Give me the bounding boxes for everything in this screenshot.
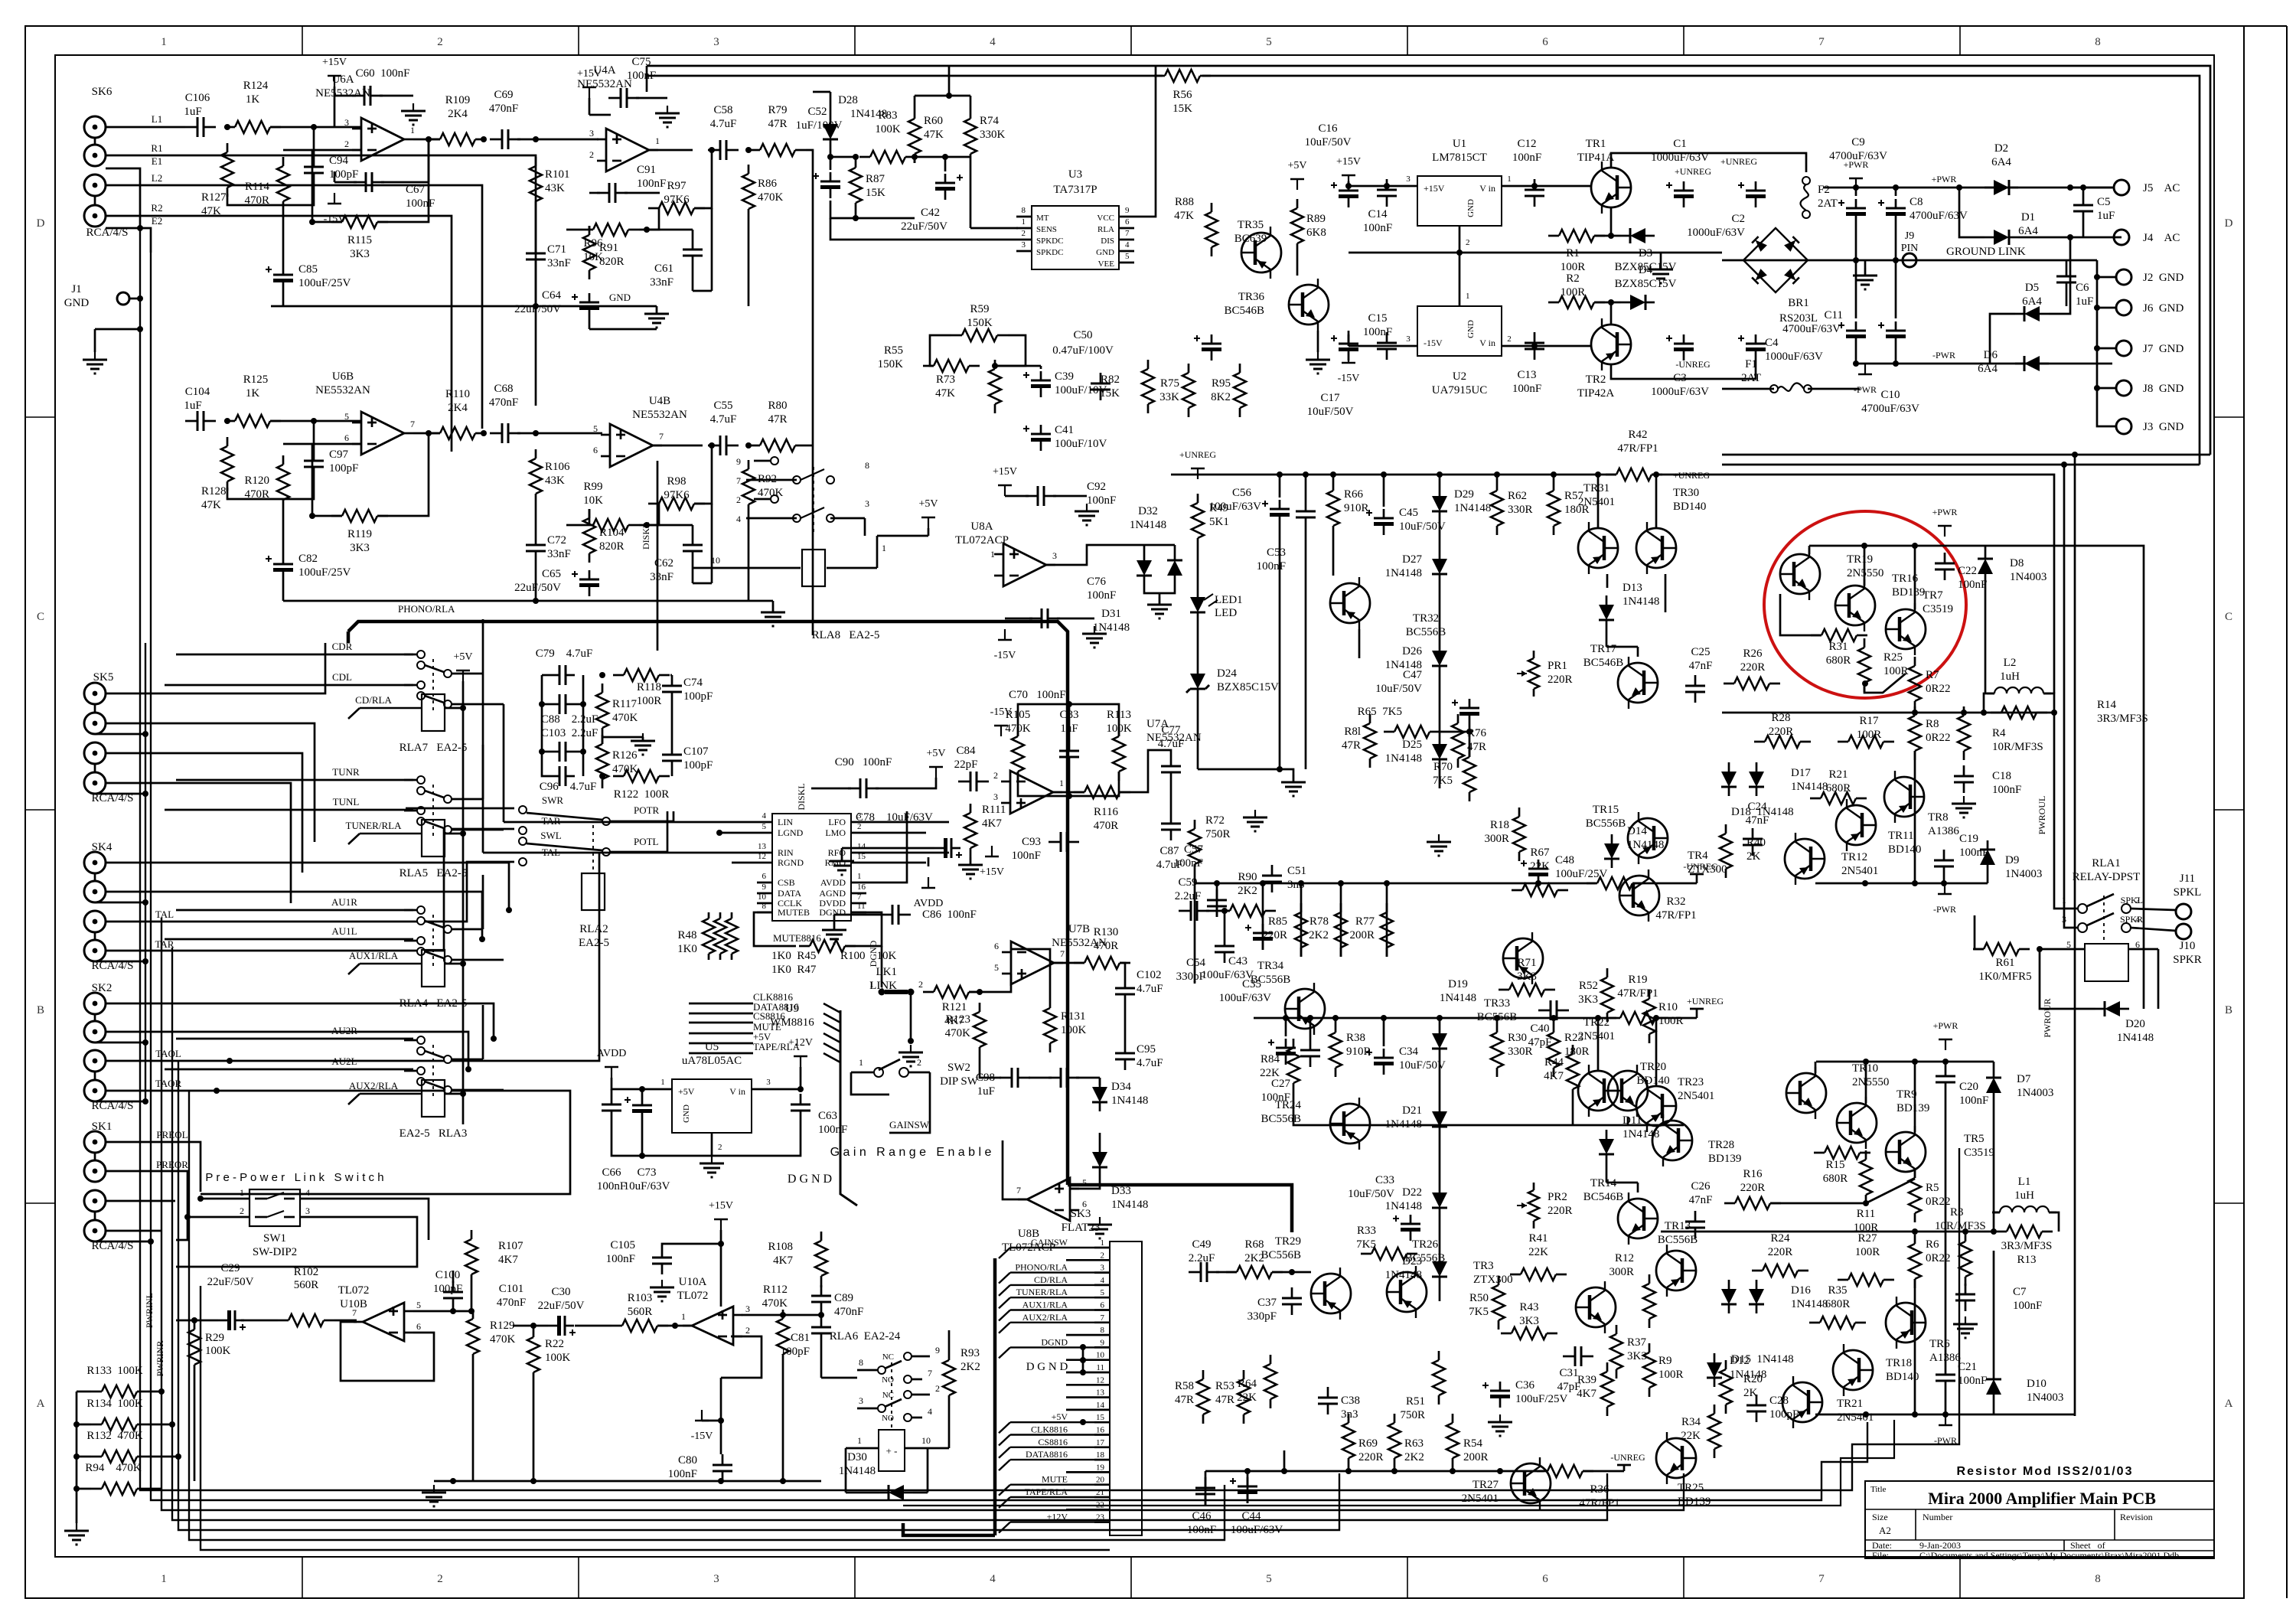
svg-text:R35: R35	[1828, 1284, 1847, 1297]
junction fb in u6b	[309, 513, 315, 519]
svg-text:2: 2	[589, 149, 594, 160]
wire outR stubs	[1815, 1062, 1817, 1073]
svg-text:5: 5	[1101, 1288, 1105, 1297]
svg-text:100R: 100R	[1561, 286, 1586, 299]
svg-text:TR29: TR29	[1275, 1235, 1301, 1248]
junction SK5 bus j1	[142, 731, 148, 737]
potentiometer PR2	[1528, 1190, 1539, 1221]
svg-text:DGND: DGND	[868, 940, 879, 967]
wire top bus left drop2	[646, 75, 648, 77]
svg-text:1: 1	[857, 872, 862, 881]
diode D14	[1604, 843, 1619, 859]
svg-text:1N4148: 1N4148	[839, 1465, 876, 1477]
connector SK5-1	[84, 683, 106, 704]
wire c90 right	[876, 778, 936, 788]
svg-text:4K7: 4K7	[1577, 1388, 1596, 1400]
diode D17	[1749, 772, 1764, 787]
svg-text:1: 1	[859, 1057, 863, 1068]
connector SK5-3	[84, 742, 106, 764]
svg-text:J7 GND: J7 GND	[2143, 343, 2184, 355]
junction j c11	[1853, 361, 1859, 367]
junction outR mj1	[1912, 1228, 1918, 1235]
wire fb left u6b	[312, 444, 361, 516]
resistor R113	[1113, 736, 1125, 772]
svg-text:C15: C15	[1368, 312, 1387, 325]
wire tr30 e	[1665, 574, 1667, 612]
svg-text:680R: 680R	[1826, 654, 1851, 667]
junction rail R j1881	[1437, 1015, 1443, 1021]
svg-text:2K: 2K	[1746, 850, 1761, 863]
ground matrix gnd	[642, 733, 644, 741]
contact RLA6 nc2	[904, 1391, 912, 1398]
ground c86 gnd	[833, 922, 835, 930]
svg-text:PR2: PR2	[1548, 1191, 1567, 1203]
wire SK5-2 feed	[106, 723, 315, 842]
wire r61 left	[1975, 915, 1984, 949]
link LK1	[879, 989, 885, 996]
svg-text:J3 GND: J3 GND	[2143, 421, 2184, 433]
svg-text:C66: C66	[602, 1166, 621, 1179]
contact CD nc2	[417, 681, 425, 689]
capacitor C97	[304, 460, 324, 462]
wire U4A vcc	[589, 98, 591, 115]
junction SK4 bus j2	[142, 958, 148, 964]
svg-text:BD140: BD140	[1636, 1075, 1669, 1087]
svg-text:3: 3	[344, 117, 349, 128]
svg-text:CD/RLA: CD/RLA	[1034, 1274, 1068, 1285]
wire d34 top	[1099, 1078, 1101, 1085]
svg-text:DATA: DATA	[778, 888, 801, 899]
wire gnd rail drop	[656, 306, 658, 314]
contact RLA6 no1	[904, 1375, 912, 1383]
svg-text:7: 7	[1060, 948, 1065, 959]
capacitor C42	[935, 187, 955, 191]
wire C61 link	[692, 230, 694, 239]
wire dgnd drop	[881, 946, 883, 987]
inductor L1	[2000, 1206, 2012, 1212]
wire psu top rail	[1611, 153, 1806, 172]
svg-text:1uH: 1uH	[2000, 670, 2020, 683]
svg-text:C47: C47	[1403, 669, 1423, 681]
svg-text:2K: 2K	[1743, 1387, 1758, 1399]
connector SK5-2	[84, 713, 106, 734]
resistor R11	[1860, 1160, 1872, 1195]
wire pwrour feed	[2064, 465, 2077, 928]
svg-text:220R: 220R	[1548, 1205, 1573, 1217]
svg-text:2N5401: 2N5401	[1578, 496, 1615, 508]
svg-text:100uF/63V: 100uF/63V	[1219, 992, 1272, 1004]
junction SK2 bus j2	[142, 1098, 148, 1104]
resistor R128	[221, 446, 233, 481]
svg-text:1: 1	[1059, 778, 1064, 788]
svg-text:5: 5	[994, 962, 999, 973]
power +PWR outR	[1945, 1039, 1946, 1050]
svg-text:CSB: CSB	[778, 877, 795, 888]
power +15V u10a	[720, 1219, 722, 1230]
wire R1 feed	[106, 155, 536, 406]
dashed RLA8	[813, 467, 814, 536]
wire r59 loop	[930, 335, 951, 366]
transistor TR10	[1786, 1073, 1826, 1113]
wire PREOL feed	[106, 1142, 201, 1192]
transistor TR31	[1578, 528, 1618, 568]
wire -unreg rail L2	[1632, 883, 1697, 885]
wire mid gnd drop	[1660, 253, 1662, 269]
svg-text:SPKR: SPKR	[2120, 914, 2143, 925]
op-amp U6A	[361, 118, 404, 161]
svg-text:C: C	[37, 611, 44, 623]
svg-text:R73: R73	[936, 374, 955, 386]
capacitor C48	[1528, 873, 1548, 876]
wire r73 top	[994, 366, 996, 369]
junction outL bj2	[1912, 880, 1918, 886]
svg-text:10uF/50V: 10uF/50V	[1305, 136, 1352, 148]
capacitor C105	[652, 1257, 672, 1259]
wire c42 top	[944, 157, 947, 171]
svg-text:5: 5	[344, 411, 349, 422]
svg-text:R71: R71	[1517, 957, 1536, 969]
resistor R52	[1601, 977, 1613, 1013]
resistor R23	[1548, 1033, 1560, 1068]
svg-text:R90: R90	[1238, 871, 1257, 883]
junction n r60 top	[946, 93, 952, 99]
svg-text:2: 2	[437, 36, 443, 48]
resistor R28	[1765, 736, 1800, 748]
diode D34	[1092, 1087, 1107, 1102]
transistor TR16	[1835, 586, 1875, 625]
svg-text:C56: C56	[1232, 487, 1252, 499]
svg-text:VCC: VCC	[1097, 214, 1114, 223]
svg-text:R40: R40	[1746, 837, 1766, 849]
svg-text:100pF: 100pF	[433, 1283, 462, 1295]
power U8A -15V	[1004, 629, 1006, 640]
svg-text:C105: C105	[610, 1239, 635, 1251]
svg-text:4700uF/63V: 4700uF/63V	[1861, 403, 1919, 415]
svg-text:TAOL: TAOL	[155, 1048, 181, 1059]
wire bus E2 vertical	[151, 253, 1867, 1500]
svg-text:100nF: 100nF	[1187, 1524, 1216, 1536]
resistor R102	[289, 1314, 324, 1326]
wire L1 feed	[106, 126, 185, 129]
capacitor Cx2	[1060, 1068, 1062, 1088]
resistor R129	[467, 1319, 479, 1354]
svg-text:C80: C80	[678, 1454, 697, 1467]
dashed AUX2	[432, 1045, 434, 1098]
svg-text:LIN: LIN	[778, 817, 793, 827]
junction bank j1	[73, 1421, 80, 1427]
svg-text:RLA7 EA2-5: RLA7 EA2-5	[400, 742, 468, 754]
svg-text:AGND: AGND	[819, 888, 846, 899]
svg-text:V in: V in	[1479, 338, 1495, 348]
svg-text:R50: R50	[1469, 1292, 1489, 1304]
connector SK6-L1	[84, 116, 106, 138]
svg-text:33nF: 33nF	[547, 257, 571, 269]
resistor R56	[1165, 70, 1200, 82]
resistor R9	[1643, 1352, 1655, 1388]
wire outL r25 bot	[1864, 674, 1906, 693]
capacitor C47	[1459, 712, 1479, 716]
svg-text:R78: R78	[1309, 915, 1329, 928]
svg-text:100nF: 100nF	[1959, 1095, 1988, 1107]
svg-text:+UNREG: +UNREG	[1687, 996, 1724, 1007]
svg-text:DISKL: DISKL	[796, 783, 807, 810]
relay RLA2	[582, 873, 605, 910]
connector SK6-R1	[84, 145, 106, 166]
svg-text:C85: C85	[298, 263, 318, 276]
svg-text:C55: C55	[713, 400, 732, 412]
svg-text:17: 17	[1096, 1438, 1105, 1447]
svg-text:15K: 15K	[1172, 103, 1192, 115]
wire col stubs R	[1285, 1018, 1287, 1036]
wire SK1-4 feed	[106, 1230, 161, 1232]
svg-text:TR8: TR8	[1928, 811, 1949, 824]
svg-text:470R: 470R	[244, 488, 269, 501]
svg-text:L1: L1	[2018, 1176, 2031, 1188]
svg-text:4.7uF: 4.7uF	[1137, 983, 1163, 995]
svg-text:R119: R119	[347, 528, 372, 540]
wire +15V rail	[334, 86, 336, 96]
svg-text:R125: R125	[243, 374, 269, 386]
svg-text:TUNER/RLA: TUNER/RLA	[1016, 1287, 1068, 1297]
wire c100 drop	[452, 1309, 455, 1311]
junction j mid1	[1456, 250, 1463, 256]
svg-text:1N4003: 1N4003	[2005, 868, 2042, 880]
svg-text:TR36: TR36	[1238, 291, 1265, 303]
junction coreR bj1678	[1281, 1468, 1287, 1474]
diode D24	[1190, 674, 1205, 689]
svg-text:TR17: TR17	[1590, 643, 1617, 655]
svg-text:680R: 680R	[1825, 1298, 1851, 1310]
svg-text:C8: C8	[1910, 196, 1923, 208]
svg-text:R33: R33	[1357, 1225, 1376, 1237]
capacitor C90	[859, 778, 862, 798]
svg-text:R13: R13	[2017, 1254, 2036, 1266]
svg-text:470K: 470K	[490, 1333, 516, 1346]
svg-text:11: 11	[857, 902, 866, 911]
junction rail L j2088	[1595, 471, 1601, 478]
wire CDL wire	[165, 684, 413, 687]
svg-text:TR12: TR12	[1841, 851, 1867, 863]
svg-text:R88: R88	[1175, 196, 1194, 208]
junction jm1	[599, 672, 605, 678]
svg-text:1: 1	[240, 1187, 244, 1198]
svg-text:1: 1	[882, 543, 886, 553]
junction n u4a out	[709, 147, 715, 153]
svg-text:R42: R42	[1628, 429, 1647, 441]
capacitor C73	[632, 1109, 652, 1113]
transistor TR2	[1591, 325, 1631, 364]
svg-text:U8A: U8A	[970, 520, 993, 533]
capacitor C100	[443, 1291, 463, 1294]
junction c63 j	[797, 1086, 804, 1092]
svg-text:470nF: 470nF	[489, 396, 518, 409]
svg-text:POTL: POTL	[634, 836, 659, 847]
svg-text:R102: R102	[294, 1266, 319, 1278]
connector SK1-1	[84, 1131, 106, 1153]
transistor TR28	[1652, 1121, 1692, 1160]
svg-text:10: 10	[711, 555, 720, 566]
U5 pins	[657, 1088, 672, 1091]
svg-text:3K3: 3K3	[1578, 993, 1598, 1006]
junction u10 gj2	[530, 1478, 536, 1484]
wire r60 r74 top	[914, 96, 916, 109]
wire c76 gnd	[1057, 618, 1094, 620]
junction corner B j	[2061, 462, 2067, 468]
svg-text:J4 AC: J4 AC	[2143, 232, 2180, 244]
wire c63 bot	[712, 1121, 801, 1156]
svg-text:R69: R69	[1358, 1437, 1378, 1450]
resistor R57	[1548, 491, 1560, 526]
capacitor C44	[1238, 1490, 1257, 1494]
wire +UNREG rail	[1722, 475, 2054, 693]
wire RLA8 coil in	[693, 567, 801, 569]
svg-text:16: 16	[1096, 1426, 1105, 1435]
svg-text:C51: C51	[1287, 865, 1306, 877]
junction bank j3	[73, 1486, 80, 1492]
svg-text:C1: C1	[1673, 138, 1687, 150]
junction coreR bj1898	[1450, 1468, 1456, 1474]
svg-text:R79: R79	[768, 104, 787, 116]
junction sk3 j15	[1080, 1419, 1086, 1425]
svg-text:820R: 820R	[599, 256, 625, 268]
resistor R64	[1264, 1364, 1277, 1399]
svg-text:TR24: TR24	[1275, 1099, 1302, 1111]
resistor R71	[1509, 984, 1544, 996]
svg-text:C104: C104	[185, 386, 210, 398]
power +UNREG led	[1197, 468, 1199, 479]
svg-text:1: 1	[681, 1311, 686, 1322]
junction j tr2 b	[1608, 299, 1614, 305]
svg-text:R85: R85	[1268, 915, 1287, 928]
svg-text:C25: C25	[1691, 646, 1710, 658]
junction outR botj1	[1863, 1411, 1869, 1418]
diode D26	[1432, 651, 1447, 666]
svg-text:1: 1	[857, 1435, 862, 1446]
wire c90 wire	[811, 788, 851, 790]
svg-text:C29: C29	[220, 1262, 240, 1274]
junction rail R j2030	[1551, 1015, 1557, 1021]
svg-text:C26: C26	[1691, 1180, 1711, 1192]
op-amp U8A	[1003, 543, 1046, 586]
svg-text:R121: R121	[942, 1001, 967, 1013]
wire r83-r60	[915, 156, 917, 158]
wire R120-C82	[282, 509, 285, 555]
dashed AUX1	[432, 915, 434, 968]
svg-text:7: 7	[659, 431, 664, 442]
svg-text:GAINSW: GAINSW	[889, 1119, 930, 1130]
svg-text:100R: 100R	[637, 695, 662, 707]
resistor R123	[974, 1012, 986, 1047]
capacitor C43	[1253, 937, 1273, 941]
svg-text:D15 1N4148: D15 1N4148	[1731, 1353, 1794, 1365]
resistor R101	[530, 166, 542, 201]
capacitor C78	[944, 838, 947, 858]
wire TAOL feed	[106, 852, 599, 1061]
wire c83 bot	[1068, 768, 1071, 796]
wire R102 out	[334, 1320, 357, 1322]
bridge rectifier BR1	[1743, 228, 1808, 292]
diode D33	[1092, 1152, 1107, 1167]
wire c56 drop	[1279, 526, 1281, 769]
wire d30	[845, 1448, 847, 1493]
svg-text:LM7815CT: LM7815CT	[1432, 152, 1487, 164]
svg-text:AU2R: AU2R	[331, 1025, 357, 1036]
connector SK2-4	[84, 1080, 106, 1101]
junction n R125 out	[311, 418, 317, 424]
resistor R92	[742, 469, 755, 504]
wire +12v	[800, 1067, 802, 1089]
wire SK4-1 feed	[106, 863, 509, 910]
IC RLA6 coil	[879, 1430, 905, 1471]
capacitor C72	[526, 544, 546, 546]
resistor R15	[1825, 1147, 1860, 1159]
junction outR mj2	[1962, 1228, 1968, 1235]
capacitor C36	[1490, 1395, 1510, 1398]
junction rail L j1742	[1330, 471, 1336, 478]
resistor R90	[1230, 905, 1265, 917]
svg-text:C89: C89	[834, 1292, 853, 1304]
ground U6B rail gnd	[772, 605, 774, 612]
wire D28-C52	[830, 148, 832, 170]
svg-text:6: 6	[593, 445, 598, 455]
svg-text:R43: R43	[1519, 1301, 1538, 1313]
junction rail R j1745	[1332, 1015, 1339, 1021]
svg-text:33nF: 33nF	[650, 571, 673, 583]
wire RLA8 coil out	[827, 567, 877, 569]
junction sk3 j9	[1080, 1344, 1086, 1350]
U3 pins right	[1119, 216, 1134, 218]
capacitor C102	[1115, 987, 1135, 990]
wire c9 top	[1855, 188, 1857, 196]
capacitor C27	[1300, 1049, 1320, 1052]
svg-text:R10: R10	[1658, 1001, 1678, 1013]
junction lk1 gnd j	[908, 1038, 914, 1044]
svg-text:C64: C64	[542, 289, 562, 302]
wire c78 gnd stub	[841, 848, 843, 861]
junction rail L j1808	[1381, 471, 1387, 478]
svg-text:TR28: TR28	[1708, 1139, 1734, 1151]
resistor R39	[1601, 1372, 1613, 1407]
svg-text:R77: R77	[1355, 915, 1375, 928]
wire R79 out DISKL	[806, 150, 813, 635]
wire sk3 dgnd	[1082, 1347, 1084, 1372]
op-amp U7B	[1011, 941, 1054, 984]
junction rail L j2164	[1653, 471, 1659, 478]
junction outL tj2	[1912, 543, 1918, 549]
svg-text:C70 100nF: C70 100nF	[1009, 689, 1066, 701]
power +15V reg	[1348, 175, 1349, 186]
svg-text:8: 8	[2095, 36, 2101, 48]
connector J4	[2114, 230, 2129, 245]
transistor TR34	[1285, 989, 1325, 1029]
wire TAR feed	[106, 829, 514, 951]
svg-text:10uF/63V: 10uF/63V	[624, 1180, 670, 1192]
junction rail L j1706	[1303, 471, 1309, 478]
resistor R80	[760, 439, 795, 452]
svg-text:C107: C107	[683, 746, 709, 758]
svg-text:1N4148: 1N4148	[1111, 1199, 1148, 1211]
svg-text:BC556B: BC556B	[1658, 1234, 1698, 1246]
svg-text:R16: R16	[1743, 1168, 1763, 1180]
capacitor C17	[1339, 347, 1358, 351]
svg-text:1N4003: 1N4003	[2010, 571, 2047, 583]
wire U9 RIN drop	[482, 674, 484, 853]
resistor R122	[624, 770, 659, 782]
svg-text:22K: 22K	[1528, 1246, 1548, 1258]
svg-text:C79 4.7uF: C79 4.7uF	[536, 648, 593, 660]
svg-text:2: 2	[918, 979, 923, 990]
junction j c14	[1384, 183, 1390, 189]
